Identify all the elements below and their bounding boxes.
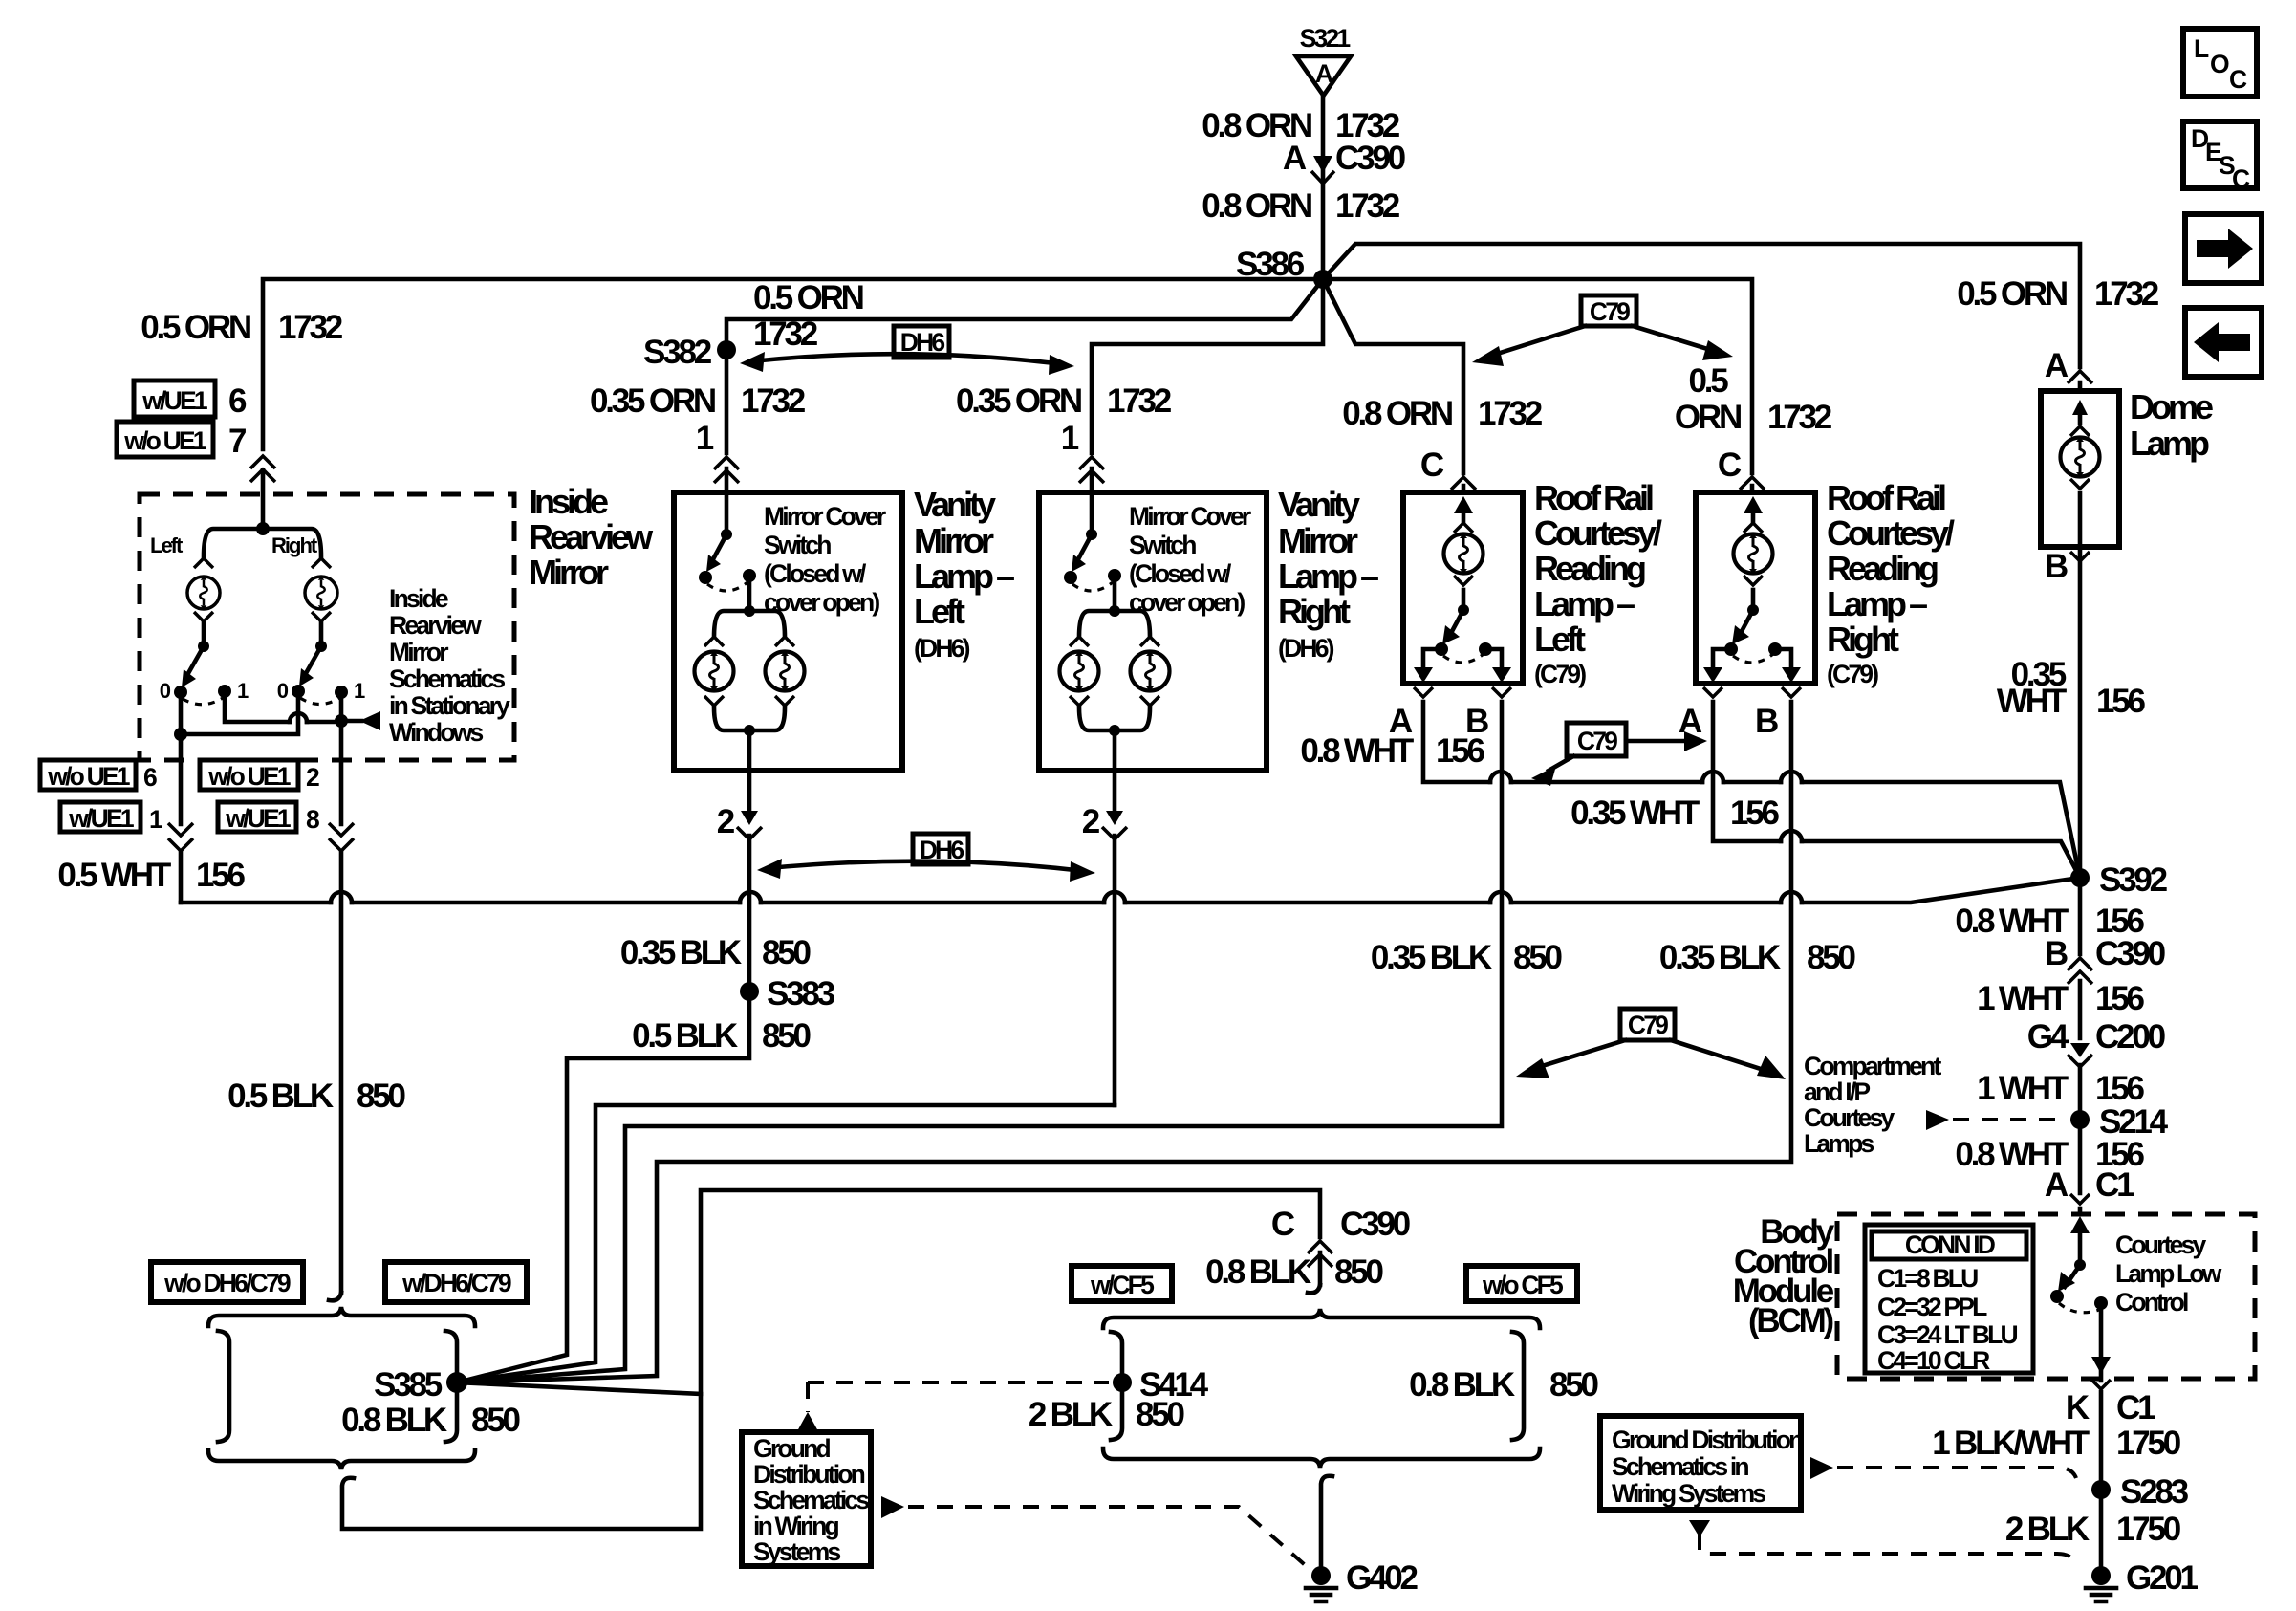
svg-text:Switch: Switch [764,531,831,559]
svg-text:156: 156 [2096,683,2146,720]
splice S214 with dashed reference arrow [1926,1110,1949,1130]
option flag w/o UE1 pin 2 [200,760,298,790]
svg-text:Dome: Dome [2130,387,2213,426]
BCM output wire to pin K [2099,1303,2104,1381]
svg-text:w/DH6/C79: w/DH6/C79 [401,1269,511,1297]
svg-text:C79: C79 [1628,1011,1668,1039]
svg-text:0.5 BLK: 0.5 BLK [227,1078,334,1115]
svg-text:Ground: Ground [753,1434,830,1463]
wire S386 to roof rail courtesy lamp right pin C (0.5 ORN 1732) [1323,279,1752,492]
svg-text:O: O [2210,50,2229,78]
svg-text:0: 0 [277,679,289,703]
svg-text:Lamp –: Lamp – [1827,584,1927,623]
roof rail right internals: lamp and switch [1703,496,1801,683]
svg-text:B: B [2045,548,2068,585]
wire S392 down to BCM pin A (right column) [2078,878,2083,1214]
mirror switch right [319,623,324,646]
svg-text:Distribution: Distribution [753,1460,865,1489]
svg-text:2: 2 [1082,803,1100,840]
svg-text:Mirror: Mirror [389,638,448,666]
svg-text:1: 1 [354,679,365,703]
svg-text:6: 6 [143,763,157,792]
svg-text:C3=24 LT BLU: C3=24 LT BLU [1877,1320,2017,1349]
svg-text:G4: G4 [2027,1018,2069,1056]
svg-text:850: 850 [1513,939,1563,976]
svg-text:0.35 ORN: 0.35 ORN [590,382,715,420]
option flag w/UE1 pin 6 [134,381,215,417]
svg-text:CONN ID: CONN ID [1905,1230,1996,1259]
svg-text:0.5: 0.5 [1688,362,1728,400]
svg-text:1 BLK/WHT: 1 BLK/WHT [1932,1425,2090,1462]
option flag w/CF5 [1072,1266,1172,1301]
svg-text:C1: C1 [2116,1389,2155,1426]
wire brace bottom to C390 ground leg [342,1382,701,1529]
svg-text:S321: S321 [1300,24,1351,53]
svg-text:Wiring Systems: Wiring Systems [1612,1479,1765,1508]
option flag w/o DH6/C79 [151,1262,303,1302]
svg-text:A: A [1283,140,1307,177]
wire S386 to S382 (0.5 ORN) [726,279,1323,344]
svg-text:A: A [1679,703,1702,740]
svg-text:w/o UE1: w/o UE1 [47,762,130,791]
reference box forward arrow [2185,214,2262,283]
svg-text:S385: S385 [374,1366,443,1404]
dashed reference from box to S283 [1810,1457,1833,1479]
alternative wire w/o CF5 [1512,1332,1524,1440]
svg-text:0.5 BLK: 0.5 BLK [632,1017,738,1055]
svg-text:Switch: Switch [1129,531,1196,559]
svg-text:C200: C200 [2095,1018,2166,1056]
svg-text:A: A [2045,1166,2069,1204]
svg-text:0.35 BLK: 0.35 BLK [620,934,742,971]
svg-text:Vanity: Vanity [1278,485,1360,524]
svg-text:1732: 1732 [1107,382,1172,420]
svg-text:Vanity: Vanity [914,485,996,524]
svg-text:in Stationary: in Stationary [389,691,510,720]
connector flag DH6 (top) with double arrow [894,326,949,358]
svg-text:C390: C390 [1335,140,1406,177]
svg-text:1: 1 [1061,420,1079,457]
connector C390 pin A marker on wire [1311,156,1334,184]
mirror lamp right [305,577,337,610]
reference box back arrow [2185,308,2262,377]
wire S385 leg up to C390 connector [701,1190,1320,1394]
svg-text:0.8 BLK: 0.8 BLK [1205,1253,1311,1291]
vanity mirror lamp left box [674,492,902,771]
svg-text:Rearview: Rearview [389,611,482,640]
svg-text:S392: S392 [2099,861,2168,899]
svg-text:Reading: Reading [1534,549,1645,588]
svg-text:Windows: Windows [389,718,484,747]
svg-text:0.8 WHT: 0.8 WHT [1300,732,1413,770]
svg-text:Right: Right [271,533,318,557]
svg-text:in Wiring: in Wiring [753,1512,839,1540]
svg-text:850: 850 [1334,1253,1384,1291]
mirror internal feed split [256,522,270,535]
svg-text:C79: C79 [1590,297,1630,326]
wire vanity right ground to S385 [457,1105,1115,1382]
svg-text:0.5 WHT: 0.5 WHT [57,857,170,894]
wire S383 to S385 [457,991,749,1382]
svg-text:0.35 BLK: 0.35 BLK [1371,939,1492,976]
svg-text:1732: 1732 [741,382,806,420]
svg-text:w/o UE1: w/o UE1 [123,426,206,455]
option flag w/UE1 pin 1 [60,802,141,832]
svg-text:Courtesy/: Courtesy/ [1534,513,1662,553]
svg-text:1732: 1732 [1478,395,1543,432]
wire S386 to roof rail courtesy lamp left pin C (0.8 ORN 1732) [1323,279,1463,492]
ground G201 [2091,1566,2111,1585]
svg-text:2 BLK: 2 BLK [2005,1511,2090,1548]
svg-text:850: 850 [1549,1366,1599,1404]
svg-text:C: C [2232,164,2250,193]
svg-text:Lamp –: Lamp – [914,556,1014,596]
svg-text:w/o UE1: w/o UE1 [207,762,291,791]
svg-text:0.35 WHT: 0.35 WHT [1570,795,1700,832]
svg-text:Schematics: Schematics [753,1486,869,1514]
svg-text:w/UE1: w/UE1 [225,804,291,833]
svg-text:w/UE1: w/UE1 [68,804,134,833]
svg-text:(C79): (C79) [1827,660,1878,688]
ground distribution schematics box (right) [1600,1416,1801,1510]
svg-text:w/CF5: w/CF5 [1090,1271,1154,1299]
dome lamp box [2041,391,2119,547]
svg-text:0.8 BLK: 0.8 BLK [341,1402,447,1439]
mirror cover switch left [725,492,729,534]
svg-text:(Closed w/: (Closed w/ [764,559,867,588]
svg-text:Lamps: Lamps [1804,1129,1874,1158]
svg-text:8: 8 [306,805,319,834]
svg-text:156: 156 [196,857,246,894]
wire S386 left to inside rearview mirror (0.5 ORN 1732) [263,279,1323,449]
vanity mirror lamp right box [1039,492,1267,771]
CONN ID table [1865,1225,2033,1373]
svg-text:(DH6): (DH6) [914,634,970,663]
svg-text:850: 850 [1136,1396,1185,1433]
svg-text:Left: Left [1534,620,1586,659]
svg-text:0.8 ORN: 0.8 ORN [1342,395,1452,432]
mirror cover switch right [1090,492,1094,534]
svg-text:Courtesy: Courtesy [1804,1103,1895,1132]
svg-text:1: 1 [696,420,714,457]
svg-text:and I/P: and I/P [1804,1078,1870,1106]
svg-text:C4=10 CLR: C4=10 CLR [1877,1346,1990,1375]
svg-text:Rearview: Rearview [529,517,654,556]
svg-text:0.5 ORN: 0.5 ORN [141,309,250,346]
svg-text:1732: 1732 [753,316,818,353]
connector flag C79 (bottom) with two arrows [1620,1009,1675,1040]
svg-text:Ground Distribution: Ground Distribution [1612,1426,1803,1454]
svg-text:156: 156 [2095,980,2145,1017]
svg-text:Right: Right [1278,592,1351,631]
reference box DESC [2183,121,2257,193]
svg-text:C1=8 BLU: C1=8 BLU [1877,1264,1978,1293]
wire brace bottom to ground G402 [1321,1476,1332,1576]
svg-text:850: 850 [1807,939,1856,976]
svg-text:Mirror Cover: Mirror Cover [764,502,886,531]
svg-text:Roof Rail: Roof Rail [1827,478,1945,517]
roof rail left internals: lamp and switch [1414,496,1511,683]
svg-text:0.8 ORN: 0.8 ORN [1202,187,1311,225]
svg-text:6: 6 [228,382,247,420]
svg-text:0.5 ORN: 0.5 ORN [753,279,863,316]
svg-text:Reading: Reading [1827,549,1938,588]
svg-text:850: 850 [762,1017,812,1055]
svg-text:C: C [1271,1206,1295,1243]
svg-text:0.35 BLK: 0.35 BLK [1659,939,1781,976]
svg-text:2: 2 [717,803,735,840]
svg-text:C: C [1718,446,1742,484]
svg-text:Left: Left [150,533,184,557]
svg-text:C79: C79 [1577,727,1617,755]
svg-text:S383: S383 [767,975,835,1012]
svg-text:1732: 1732 [2094,275,2159,313]
roof rail courtesy/reading lamp right box [1696,492,1815,684]
option flag w/UE1 pin 8 [218,802,296,832]
alternatives brace bottom (BCM ground) [1103,1448,1540,1468]
dashed reference from box to G201 [1689,1520,1710,1537]
svg-text:1732: 1732 [1767,399,1832,436]
svg-text:B: B [1755,703,1778,740]
svg-text:0.35 ORN: 0.35 ORN [956,382,1081,420]
svg-text:Inside: Inside [529,482,608,521]
connector C390 pin C marker [1308,1241,1332,1267]
svg-text:w/o DH6/C79: w/o DH6/C79 [163,1269,291,1297]
wire S382 to vanity mirror lamp left pin 1 (0.35 ORN 1732) [725,350,729,492]
svg-text:(Closed w/: (Closed w/ [1129,559,1232,588]
connector C200 pin G4 marker [2070,1043,2090,1057]
body control module BCM dashed box [1837,1214,2255,1379]
svg-text:S382: S382 [643,334,712,371]
roof rail courtesy/reading lamp left box [1403,492,1523,684]
svg-text:Compartment: Compartment [1804,1052,1941,1080]
svg-text:1 WHT: 1 WHT [1977,1070,2069,1107]
splice S383 [740,982,759,1001]
svg-text:C: C [1420,446,1444,484]
alternative wire w/DH6/C79 with splice S385 [445,1331,457,1442]
svg-text:1 WHT: 1 WHT [1977,980,2069,1017]
svg-text:C1: C1 [2095,1166,2134,1204]
svg-text:Courtesy: Courtesy [2115,1230,2207,1259]
alternative wire w/o DH6/C79 [218,1331,229,1442]
svg-text:Mirror: Mirror [914,521,994,560]
vanity left pin 2 output wire (0.35 BLK 850) [747,771,752,991]
roof rail right pin A wire (0.35 WHT 156) to S392 [1713,702,2080,878]
svg-text:(C79): (C79) [1534,660,1586,688]
dashed reference to S414 from ground distribution schematics [808,1382,1109,1412]
ground distribution schematics box (left) [742,1432,871,1566]
svg-text:Right: Right [1827,620,1899,659]
BCM connector C1 pin A marker [2070,1194,2090,1204]
svg-text:G402: G402 [1346,1559,1419,1597]
alternatives brace top (mirror ground) [208,1307,475,1326]
svg-text:A: A [2045,347,2069,384]
roof rail left pin A wire (0.8 WHT 156) to S392 [1423,702,2080,878]
dashed reference from box to G402 [881,1496,904,1518]
mirror switch left [202,623,206,646]
svg-text:K: K [2066,1389,2090,1426]
svg-text:C: C [2229,65,2247,94]
roof rail right pin B wire (0.35 BLK 850) down to S385 run [457,702,1791,1382]
main courtesy bus wire 0.5 WHT 156 to S392 [181,878,2080,903]
svg-text:Mirror: Mirror [529,553,609,592]
svg-text:1732: 1732 [1335,187,1400,225]
svg-text:850: 850 [762,934,812,971]
wire S386 down-left corner to vanity mirror lamp right pin 1 (0.35 ORN 1732) [1092,279,1323,492]
svg-text:156: 156 [1730,795,1780,832]
svg-text:850: 850 [471,1402,521,1439]
svg-text:156: 156 [1436,732,1485,770]
connector flag DH6 (lower) with double arrow [913,834,968,864]
svg-text:0.5 ORN: 0.5 ORN [1957,275,2067,313]
svg-text:850: 850 [357,1078,406,1115]
svg-text:Schematics in: Schematics in [1612,1452,1748,1481]
svg-text:Systems: Systems [753,1537,840,1566]
svg-text:0: 0 [160,679,171,703]
svg-text:(DH6): (DH6) [1278,634,1334,663]
svg-text:1750: 1750 [2116,1425,2181,1462]
splice S283 [2091,1480,2111,1499]
svg-text:G201: G201 [2126,1559,2199,1597]
svg-text:Left: Left [914,592,965,631]
svg-text:(BCM): (BCM) [1748,1302,1833,1339]
svg-text:Schematics: Schematics [389,664,505,693]
alternatives brace top (BCM ground) [1103,1309,1540,1328]
wire pin K C1 down to G201 (1 BLK/WHT 1750) [2099,1392,2104,1576]
option flag w/o UE1 pin 6 [40,760,136,790]
svg-text:1732: 1732 [278,309,343,346]
svg-text:w/o CF5: w/o CF5 [1482,1271,1563,1299]
vanity right pin 2 output wire (0.35 BLK 850) [1113,771,1117,1105]
mirror output wire right pin [339,721,344,1293]
vanity right twin lamps [1079,576,1150,637]
connector flag C79 (top) with two arrows [1581,295,1636,326]
roof rail left pin B wire (0.35 BLK 850) down to S385 run [457,702,1502,1382]
svg-text:156: 156 [2095,1070,2145,1107]
mirror internal wiring to schematics arrow [181,691,341,734]
mirror lamp left [187,577,220,610]
svg-text:C390: C390 [1340,1206,1411,1243]
svg-text:WHT: WHT [1997,683,2067,720]
dome lamp internals [2078,409,2083,423]
svg-text:ORN: ORN [1675,399,1741,436]
svg-text:1: 1 [237,679,249,703]
svg-text:Control: Control [2115,1288,2188,1317]
svg-text:C2=32 PPL: C2=32 PPL [1877,1293,1987,1321]
svg-text:Lamp –: Lamp – [1534,584,1635,623]
svg-text:w/UE1: w/UE1 [141,386,207,415]
svg-text:Roof Rail: Roof Rail [1534,478,1653,517]
vanity left twin lamps [714,576,785,637]
wire end hook above CF5 brace [1308,1285,1320,1293]
svg-text:A: A [1315,59,1333,88]
svg-text:B: B [2045,935,2068,972]
reference box LOC [2183,29,2257,97]
svg-text:Lamp Low: Lamp Low [2115,1259,2222,1288]
mirror output wire left pin (0.5 WHT 156) [179,692,184,903]
svg-text:Mirror Cover: Mirror Cover [1129,502,1251,531]
svg-text:2: 2 [306,763,319,792]
inline connector marker on mirror feed wire [250,456,275,482]
alternative wire w/CF5 with splice S414 [1111,1332,1122,1440]
splice S321 (triangle symbol with A) [1296,24,1351,96]
courtesy lamp low control switch in BCM [2078,1230,2083,1265]
svg-text:1: 1 [149,805,162,834]
alternatives brace bottom (mirror ground) [208,1450,475,1469]
wire end hook above brace [329,1293,341,1300]
option flag w/DH6/C79 [385,1262,527,1302]
dome lamp pin B wire (0.35 WHT 156) to S392 [2078,547,2083,878]
svg-text:0.8 BLK: 0.8 BLK [1409,1366,1515,1404]
option flag w/o CF5 [1466,1266,1577,1301]
connector C390 pin B marker [2068,958,2092,984]
svg-text:7: 7 [228,423,246,460]
ground G402 [1311,1566,1331,1585]
splice S392 [2070,868,2090,887]
inside rearview mirror dashed box [140,494,514,760]
svg-text:Lamp: Lamp [2130,424,2209,463]
wire S386 to dome lamp pin A (0.5 ORN 1732) [1323,244,2080,391]
svg-text:Mirror: Mirror [1278,521,1358,560]
option flag w/o UE1 pin 7 [117,422,213,457]
wire S321 to S386 (0.8 ORN 1732) [1321,96,1326,274]
svg-text:Lamp –: Lamp – [1278,556,1378,596]
svg-text:C390: C390 [2095,935,2166,972]
svg-text:Inside: Inside [389,584,448,613]
svg-text:Courtesy/: Courtesy/ [1827,513,1955,553]
svg-text:2 BLK: 2 BLK [1029,1396,1113,1433]
connector flag C79 (middle) with arrows [1567,723,1626,756]
svg-text:1750: 1750 [2116,1511,2181,1548]
svg-text:S283: S283 [2120,1473,2189,1511]
